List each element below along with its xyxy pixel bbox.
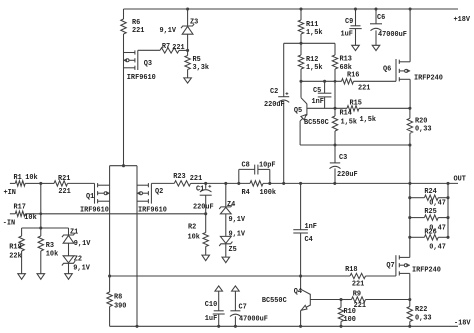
- svg-text:1,5k: 1,5k: [360, 116, 377, 124]
- svg-text:3,3k: 3,3k: [193, 64, 210, 72]
- svg-text:1,5k: 1,5k: [306, 29, 323, 37]
- svg-text:C9: C9: [345, 18, 353, 26]
- wire +18V rail: [124, 7, 459, 10]
- capacitor C7 47000uF: [230, 291, 268, 326]
- svg-text:Z3: Z3: [190, 19, 198, 27]
- resistor R8 390: [107, 276, 127, 326]
- wire R20 to OUT line: [409, 145, 411, 183]
- ground arrow below R19: [18, 274, 26, 280]
- svg-text:221: 221: [172, 44, 184, 52]
- svg-text:0,47: 0,47: [429, 243, 446, 251]
- svg-text:Q3: Q3: [144, 60, 152, 68]
- transistor Q6 IRFP240: [383, 59, 443, 83]
- svg-text:R10: R10: [344, 308, 356, 316]
- svg-text:9,1V: 9,1V: [229, 231, 246, 239]
- node A junction R1 R21: [39, 182, 42, 185]
- resistor R24 0.47: [410, 188, 448, 207]
- svg-text:220uF: 220uF: [337, 171, 358, 179]
- ground arrow above C10: [215, 286, 223, 291]
- resistor R14: [332, 108, 357, 145]
- svg-text:10k: 10k: [25, 174, 37, 182]
- capacitor C10 1uF: [205, 291, 225, 326]
- svg-text:47000uF: 47000uF: [378, 31, 407, 39]
- wire Q5 base line: [307, 107, 347, 109]
- svg-text:R3: R3: [46, 242, 54, 250]
- transistor Q4 BC550C: [262, 276, 310, 311]
- svg-text:R6: R6: [132, 19, 140, 27]
- svg-text:221: 221: [190, 175, 202, 183]
- resistor R21: [41, 175, 95, 196]
- svg-text:R9: R9: [353, 290, 361, 298]
- svg-text:C7: C7: [239, 303, 247, 311]
- resistor R20: [407, 108, 431, 145]
- svg-text:R16: R16: [347, 72, 359, 80]
- wire Q2 drain lead: [135, 166, 138, 328]
- zener Z5 9.1V: [219, 214, 246, 257]
- svg-text:IRF9610: IRF9610: [80, 207, 109, 215]
- node -18V label: [454, 320, 471, 328]
- svg-text:R13: R13: [340, 56, 352, 64]
- svg-text:R21: R21: [58, 175, 70, 183]
- svg-text:390: 390: [114, 302, 126, 310]
- svg-text:221: 221: [58, 188, 70, 196]
- svg-text:220uF: 220uF: [264, 101, 285, 109]
- resistor R9: [341, 290, 410, 310]
- svg-text:47000uF: 47000uF: [239, 315, 268, 323]
- ground arrow below Z2: [65, 274, 73, 280]
- svg-text:1nF: 1nF: [305, 223, 317, 231]
- capacitor C2 220uF: [264, 43, 289, 183]
- svg-text:OUT: OUT: [454, 176, 466, 184]
- wire -18V rail: [110, 325, 458, 328]
- svg-text:R1: R1: [14, 174, 22, 182]
- svg-text:R20: R20: [415, 117, 427, 125]
- transistor Q7 IRFP240: [386, 255, 441, 276]
- svg-text:R7: R7: [162, 43, 170, 51]
- svg-text:C3: C3: [339, 154, 347, 162]
- transistor Q2 IRF9610: [137, 183, 167, 214]
- svg-text:0,47: 0,47: [429, 199, 446, 207]
- resistor R23: [173, 173, 206, 186]
- svg-text:R8: R8: [114, 293, 122, 301]
- svg-text:100: 100: [344, 316, 356, 324]
- svg-text:C1: C1: [196, 186, 204, 194]
- svg-text:10k: 10k: [188, 233, 200, 241]
- capacitor C8 10pF: [239, 161, 276, 183]
- svg-text:22k: 22k: [9, 252, 21, 260]
- capacitor C5 1nF: [312, 81, 332, 108]
- svg-text:221: 221: [358, 84, 370, 92]
- node +18V label: [454, 16, 471, 24]
- svg-text:C2: C2: [270, 88, 278, 96]
- node junction C1 R2 -IN: [204, 212, 207, 215]
- svg-text:Q7: Q7: [386, 262, 394, 270]
- capacitor C9 1uF: [341, 9, 362, 45]
- resistor R7: [138, 43, 188, 53]
- resistor R25 0.47: [410, 208, 448, 232]
- capacitor C1 220uF: [193, 183, 214, 213]
- svg-text:10pF: 10pF: [259, 161, 276, 169]
- node OUT label: [454, 176, 466, 184]
- ground arrow below R3: [37, 274, 45, 280]
- zener Z2 9.1V: [62, 243, 91, 274]
- svg-text:IRF9610: IRF9610: [138, 206, 167, 214]
- wire Q7 gate line: [108, 274, 350, 277]
- resistor R4 100k: [242, 181, 301, 197]
- svg-text:R4: R4: [242, 189, 250, 197]
- transistor Q3 IRF9610: [123, 50, 156, 82]
- svg-text:R2: R2: [188, 224, 196, 232]
- resistor R3 10k: [38, 228, 58, 274]
- svg-text:-18V: -18V: [454, 320, 471, 328]
- svg-text:IRFP240: IRFP240: [414, 75, 443, 83]
- svg-text:220uF: 220uF: [193, 203, 214, 211]
- resistor R15: [347, 100, 410, 124]
- resistor R16: [342, 72, 397, 93]
- ground arrow below C6: [372, 45, 380, 50]
- wire node between R11 and R12: [284, 42, 335, 45]
- svg-text:Z4: Z4: [227, 201, 235, 209]
- svg-text:IRFP240: IRFP240: [412, 267, 441, 275]
- svg-text:+18V: +18V: [454, 16, 471, 24]
- wire R6 to Q3 and down to diff pair: [123, 34, 125, 166]
- svg-text:10k: 10k: [46, 251, 58, 259]
- resistor R11: [298, 9, 322, 43]
- svg-text:Z5: Z5: [229, 246, 237, 254]
- resistor R5: [185, 34, 209, 78]
- svg-text:R18: R18: [345, 266, 357, 274]
- svg-text:R5: R5: [193, 56, 201, 64]
- svg-text:+IN: +IN: [4, 189, 16, 197]
- svg-text:1,5k: 1,5k: [306, 64, 323, 72]
- wire R13 to R14 junction: [333, 81, 336, 110]
- wire Q4 emitter to -18V rail: [300, 311, 302, 327]
- ground arrow below R2: [202, 255, 210, 261]
- svg-text:R11: R11: [306, 21, 318, 29]
- wire Q5 collector node line: [299, 80, 341, 83]
- capacitor C4 1nF: [293, 183, 317, 276]
- svg-text:100k: 100k: [260, 189, 277, 197]
- wire Q6 drain to +18V rail: [409, 9, 411, 62]
- svg-text:R24: R24: [424, 188, 436, 196]
- resistor R17 10k: [10, 204, 206, 222]
- zener Z3 9.1V: [160, 9, 199, 35]
- svg-text:R14: R14: [340, 109, 352, 117]
- capacitor C3 220uF: [330, 145, 358, 183]
- svg-text:R15: R15: [350, 100, 362, 108]
- wire clamp branch line: [22, 226, 69, 229]
- svg-text:Q6: Q6: [383, 65, 391, 73]
- svg-text:C6: C6: [377, 14, 385, 22]
- wire right output bus: [446, 183, 449, 238]
- svg-text:C5: C5: [313, 87, 321, 95]
- svg-text:-IN: -IN: [3, 219, 15, 227]
- svg-text:R19: R19: [9, 243, 21, 251]
- svg-text:C4: C4: [305, 236, 313, 244]
- resistor R10 100: [338, 300, 356, 327]
- wire Q4 base line: [310, 298, 342, 301]
- ground arrow below Z5: [222, 257, 230, 263]
- svg-text:0,33: 0,33: [415, 126, 432, 134]
- capacitor C6 47000uF: [370, 9, 407, 45]
- wire output feedback line: [151, 182, 174, 184]
- zener Z4 9.1V: [219, 183, 246, 224]
- wire feedback line middle: [204, 182, 250, 185]
- wire Q7 source to R22 node: [408, 273, 411, 301]
- resistor R1 10k: [10, 174, 41, 186]
- svg-text:1uF: 1uF: [205, 315, 217, 323]
- svg-text:9,1V: 9,1V: [74, 240, 91, 248]
- svg-text:9,1V: 9,1V: [73, 265, 90, 273]
- resistor R26 0.47: [410, 229, 448, 252]
- svg-text:9,1V: 9,1V: [229, 216, 246, 224]
- ground arrow below C9: [352, 45, 360, 50]
- svg-text:221: 221: [132, 27, 144, 35]
- node -IN: [3, 219, 15, 227]
- svg-text:R17: R17: [14, 204, 26, 212]
- svg-text:BC550C: BC550C: [304, 119, 329, 127]
- svg-text:Q5: Q5: [294, 107, 302, 115]
- resistor R19 22k: [9, 228, 24, 274]
- svg-text:1uF: 1uF: [341, 31, 353, 39]
- svg-text:BC550C: BC550C: [262, 297, 287, 305]
- resistor R13 68k: [332, 43, 352, 81]
- ground arrow below R5: [184, 78, 192, 83]
- svg-text:Q1: Q1: [86, 193, 94, 201]
- wire diff pair top to Q3 drain: [110, 164, 137, 167]
- svg-text:Q2: Q2: [155, 188, 163, 196]
- transistor Q5 BC550C: [294, 81, 329, 127]
- resistor R12: [298, 43, 322, 81]
- wire feedback line right: [282, 182, 458, 185]
- svg-text:C8: C8: [242, 161, 250, 169]
- svg-text:1,5k: 1,5k: [341, 119, 358, 127]
- ground arrow above C7: [232, 286, 240, 291]
- wire node A down to clamp network: [40, 183, 42, 228]
- resistor R2 10k: [188, 214, 209, 255]
- svg-text:0,33: 0,33: [415, 315, 432, 323]
- svg-text:R22: R22: [415, 306, 427, 314]
- svg-text:C10: C10: [205, 301, 217, 309]
- wire Q5 emitter line: [300, 121, 411, 147]
- zener Z1 9.1V: [62, 228, 91, 248]
- resistor R18: [345, 266, 396, 289]
- svg-text:221: 221: [352, 281, 364, 289]
- transistor Q1 IRF9610: [80, 183, 110, 214]
- node +IN: [4, 189, 16, 197]
- svg-text:10k: 10k: [24, 214, 36, 222]
- resistor R6: [121, 9, 145, 35]
- wire Q6 source to R20: [408, 79, 411, 110]
- svg-text:R23: R23: [173, 173, 185, 181]
- wire Q1 drain lead: [109, 166, 111, 276]
- svg-text:Q4: Q4: [294, 288, 302, 296]
- resistor R22 0.33: [407, 300, 431, 327]
- svg-text:Z1: Z1: [70, 229, 78, 237]
- svg-text:R26: R26: [424, 229, 436, 237]
- svg-text:R12: R12: [306, 56, 318, 64]
- svg-text:Z2: Z2: [74, 255, 82, 263]
- svg-text:IRF9610: IRF9610: [127, 74, 156, 82]
- wire left output bus: [408, 183, 411, 257]
- svg-text:9,1V: 9,1V: [160, 27, 177, 35]
- svg-text:1nF: 1nF: [312, 98, 324, 106]
- svg-text:R25: R25: [424, 208, 436, 216]
